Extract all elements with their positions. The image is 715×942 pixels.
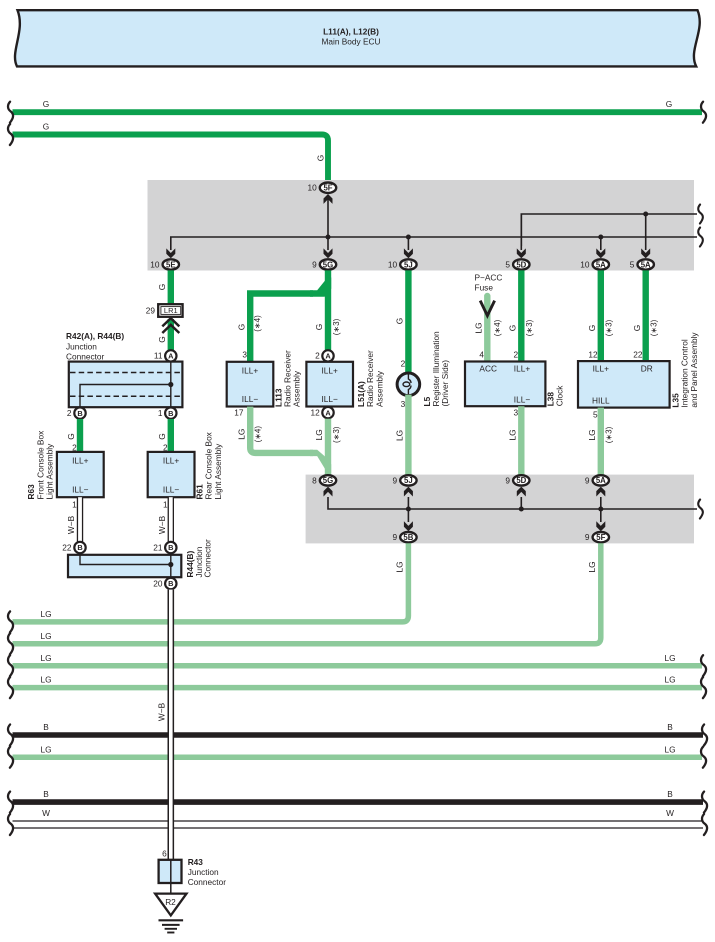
svg-text:B: B: [667, 789, 673, 799]
arrow into 5A (left): [596, 248, 605, 258]
svg-text:5F: 5F: [596, 533, 605, 542]
svg-text:Main Body ECU: Main Body ECU: [321, 37, 380, 47]
wire break (left, LG2): [8, 633, 13, 654]
junction connector R44(B): [68, 555, 181, 577]
internal wire of R44(B): [80, 555, 171, 577]
wire break (right, lower band bus): [698, 500, 703, 519]
wire LG: 5F down to LG bus 2: [13, 543, 601, 644]
arrow into 5G: [324, 248, 333, 258]
wire LG: bulb to 9-5J: [405, 395, 411, 475]
wire G: 5A to L35 DR: [643, 270, 649, 361]
svg-text:Assembly: Assembly: [292, 370, 302, 407]
svg-text:29: 29: [146, 305, 156, 315]
internal wire A to Bs: [80, 362, 171, 407]
svg-text:W: W: [666, 808, 674, 818]
wire break (left, G upper): [8, 102, 13, 123]
svg-text:LG: LG: [508, 429, 518, 440]
wire G: pin B to R63: [77, 419, 83, 453]
svg-text:5G: 5G: [323, 476, 333, 485]
svg-text:9: 9: [392, 475, 397, 485]
svg-text:L11(A), L12(B): L11(A), L12(B): [323, 27, 379, 37]
svg-text:ILL−: ILL−: [242, 394, 259, 404]
svg-text:LG: LG: [40, 675, 51, 685]
junction node at 5J drop: [406, 235, 411, 240]
arrow into 9-5B: [404, 521, 413, 531]
component L113 Radio Receiver Assembly: [227, 362, 274, 407]
svg-text:G: G: [632, 325, 642, 331]
svg-text:6: 6: [162, 849, 167, 859]
pin 2 B of R42: [74, 407, 85, 418]
wire break (left, LG1): [8, 611, 13, 632]
svg-text:5B: 5B: [403, 533, 413, 542]
wire W-B below R61: [169, 497, 173, 541]
junction node at 5A/5F: [598, 507, 603, 512]
svg-text:1: 1: [163, 500, 168, 510]
svg-text:G: G: [587, 325, 597, 331]
pin 11 A of R42: [165, 350, 176, 361]
svg-text:4: 4: [479, 349, 484, 359]
svg-text:A: A: [325, 352, 331, 361]
svg-text:5D: 5D: [516, 260, 526, 269]
wire LG: L113 pin17 + L51 pin12 merge to 8-5G: [250, 407, 313, 453]
wire stub to 5G arrow: [327, 237, 329, 250]
stub 5D: [520, 497, 522, 509]
svg-text:20: 20: [153, 578, 163, 588]
junction node at 6A drop (upper bus): [643, 212, 648, 217]
connector 5B (pin 9): [400, 532, 416, 542]
svg-text:G: G: [43, 122, 49, 132]
ground point R2 (triangle): [155, 894, 186, 916]
svg-text:Connector: Connector: [188, 877, 227, 887]
svg-text:B: B: [77, 409, 82, 418]
wire G: 5J to bulb L5: [405, 270, 411, 374]
connector 5J (pin 9): [400, 475, 416, 485]
svg-text:LG: LG: [314, 429, 324, 440]
svg-text:ILL+: ILL+: [242, 366, 259, 376]
bulb L5 Register Illumination (Driver Side): [397, 373, 420, 396]
pin 12 A of L51(A): [322, 407, 333, 418]
svg-text:W: W: [42, 808, 50, 818]
svg-text:A: A: [325, 408, 331, 417]
svg-text:B: B: [168, 409, 173, 418]
svg-text:10: 10: [580, 259, 590, 269]
svg-text:Connector: Connector: [66, 352, 105, 362]
svg-text:LR1: LR1: [164, 306, 178, 315]
ground symbol: [159, 919, 184, 921]
bus wire (black, upper) 5D-6A row: [521, 214, 697, 246]
wire G bus (lower) turning down to connector 5F: [13, 135, 329, 183]
connector band (Main Body ECU side, upper gray): [148, 180, 695, 271]
svg-text:17: 17: [234, 407, 244, 417]
pin 20 B of R44(B): [165, 578, 176, 589]
svg-text:(∗3): (∗3): [332, 318, 341, 335]
wire drop to 5A (right) crossing lower bus: [645, 214, 647, 250]
wire break (right, upper bus): [698, 205, 703, 224]
arrow into 5F: [324, 194, 333, 204]
svg-text:(∗4): (∗4): [253, 426, 262, 443]
svg-text:ILL+: ILL+: [72, 456, 89, 466]
svg-text:5J: 5J: [404, 260, 413, 269]
svg-text:G: G: [315, 155, 325, 161]
svg-text:22: 22: [62, 542, 72, 552]
svg-text:9: 9: [312, 259, 317, 269]
svg-text:HILL: HILL: [592, 396, 610, 406]
connector 5F (pin 10): [320, 183, 336, 193]
svg-text:LG: LG: [664, 675, 675, 685]
svg-text:12: 12: [588, 349, 598, 359]
svg-text:5E: 5E: [166, 260, 176, 269]
component R61 Rear Console Box Light Assembly: [148, 452, 195, 497]
arrow into 5A (right): [641, 248, 650, 258]
junction connector R43: [159, 860, 182, 883]
svg-text:G: G: [66, 433, 76, 439]
svg-text:LG: LG: [587, 429, 597, 440]
svg-text:Junction: Junction: [188, 867, 219, 877]
svg-text:9: 9: [392, 532, 397, 542]
stub 5A to 5F: [600, 497, 602, 522]
svg-text:B: B: [77, 543, 82, 552]
svg-text:G: G: [395, 318, 405, 324]
svg-text:ILL+: ILL+: [593, 364, 610, 374]
svg-text:G: G: [157, 336, 167, 342]
svg-text:5: 5: [630, 259, 635, 269]
svg-text:G: G: [236, 324, 246, 330]
svg-text:10: 10: [307, 183, 317, 193]
svg-text:2: 2: [401, 359, 406, 369]
svg-text:(∗4): (∗4): [493, 319, 502, 336]
connector 5F (pin 9): [593, 532, 609, 542]
svg-text:(∗3): (∗3): [604, 319, 613, 336]
svg-text:1: 1: [158, 408, 163, 418]
component L51(A) Radio Receiver Assembly: [306, 362, 353, 407]
arrow into 9-5D: [517, 487, 526, 497]
svg-text:5D: 5D: [516, 476, 526, 485]
svg-text:10: 10: [150, 259, 160, 269]
arrow into 9-5F: [596, 521, 605, 531]
wire LG: 5B down to LG bus 1: [13, 543, 409, 622]
svg-text:LG: LG: [40, 631, 51, 641]
connector 5A (pin 9): [593, 475, 609, 485]
wire to ground triangle: [170, 883, 172, 894]
wire G: 5G to L51(A) pin 2 with branch to L113: [325, 270, 331, 350]
wire B bus 2: [13, 799, 704, 805]
wire break (left, G lower): [8, 124, 13, 145]
svg-text:8: 8: [312, 475, 317, 485]
svg-text:G: G: [43, 99, 49, 109]
svg-text:and Panel Assembly: and Panel Assembly: [689, 332, 699, 408]
wire G: 5E to LR1: [168, 270, 174, 304]
component L38 Clock: [465, 362, 545, 407]
wire 5F stub: [327, 196, 329, 237]
shield chevrons: [162, 318, 179, 333]
svg-text:G: G: [314, 324, 324, 330]
wire G bus (upper horizontal): [13, 109, 703, 115]
svg-text:5J: 5J: [404, 476, 413, 485]
junction connector R42(A), R44(B): [69, 362, 183, 408]
svg-text:LG: LG: [474, 322, 484, 333]
wire G: LR1 to pin 11A: [168, 319, 174, 351]
pin 22 B of R44(B): [74, 542, 85, 553]
fuse V symbol: [480, 301, 494, 316]
svg-text:(∗4): (∗4): [253, 315, 262, 332]
wire W bus (white, double line): [13, 820, 704, 822]
svg-text:B: B: [43, 789, 49, 799]
junction node inside R42: [168, 382, 173, 387]
wire G: 5A to L35 ILL+: [598, 270, 604, 361]
svg-text:LG: LG: [40, 744, 51, 754]
wire W-B below R63: [78, 497, 82, 541]
arrow into 5E: [166, 248, 175, 258]
svg-text:(∗3): (∗3): [332, 426, 341, 443]
svg-text:Junction: Junction: [66, 342, 97, 352]
svg-text:W−B: W−B: [66, 515, 76, 534]
wire break (right, G upper): [701, 102, 706, 123]
svg-text:B: B: [667, 722, 673, 732]
svg-text:R43: R43: [188, 857, 204, 867]
svg-text:B: B: [43, 722, 49, 732]
ECU block L11(A), L12(B) Main Body ECU: [15, 10, 700, 66]
component L35 Integration Control and Panel Assembly: [578, 361, 670, 408]
connector 5G (pin 9): [320, 259, 336, 269]
connector 5A (pin 10): [593, 259, 609, 269]
arrow into 5D: [517, 248, 526, 258]
svg-text:22: 22: [633, 349, 643, 359]
svg-text:5A: 5A: [596, 476, 606, 485]
wire drop to 5A (left): [600, 237, 602, 250]
svg-text:ILL−: ILL−: [72, 485, 89, 495]
stub 5J to 5B: [407, 497, 409, 522]
svg-text:B: B: [168, 543, 173, 552]
svg-text:Connector: Connector: [202, 539, 212, 578]
svg-text:5F: 5F: [323, 184, 332, 193]
svg-text:LG: LG: [664, 744, 675, 754]
svg-text:12: 12: [310, 407, 320, 417]
svg-text:2: 2: [315, 351, 320, 361]
svg-text:9: 9: [585, 532, 590, 542]
svg-text:ACC: ACC: [479, 364, 497, 374]
wire stub to 5J arrow: [407, 237, 409, 250]
svg-text:ILL+: ILL+: [514, 364, 531, 374]
pin 2 A of L51(A): [322, 350, 333, 361]
svg-text:B: B: [168, 579, 173, 588]
svg-text:10: 10: [388, 259, 398, 269]
svg-text:9: 9: [505, 475, 510, 485]
svg-text:LG: LG: [236, 429, 246, 440]
svg-text:LG: LG: [395, 561, 405, 572]
arrow into 9-5J: [404, 487, 413, 497]
wire break (right, lower bus): [698, 228, 703, 247]
svg-text:LG: LG: [40, 653, 51, 663]
svg-text:3: 3: [401, 399, 406, 409]
svg-text:Light Assembly: Light Assembly: [45, 443, 55, 500]
svg-text:11: 11: [154, 351, 163, 361]
connector 5D (pin 5): [513, 259, 529, 269]
svg-text:G: G: [666, 99, 672, 109]
wire G: 5D to L38 ILL+: [518, 270, 524, 361]
connector 5D (pin 9): [513, 475, 529, 485]
svg-text:Clock: Clock: [555, 385, 565, 407]
svg-text:ILL+: ILL+: [163, 456, 180, 466]
svg-text:5: 5: [505, 259, 510, 269]
connector 5E (pin 10): [163, 259, 179, 269]
svg-text:5: 5: [593, 410, 598, 420]
svg-text:ILL+: ILL+: [322, 366, 339, 376]
svg-text:5A: 5A: [596, 260, 606, 269]
svg-text:A: A: [168, 352, 174, 361]
svg-text:LG: LG: [587, 561, 597, 572]
arrow into 9-5A: [596, 487, 605, 497]
junction node at 5D: [519, 507, 524, 512]
svg-text:3: 3: [513, 407, 518, 417]
relay block LR1 (pin 29): [158, 304, 182, 317]
svg-text:W−B: W−B: [157, 515, 167, 534]
svg-text:(Driver Side): (Driver Side): [440, 360, 450, 407]
svg-text:G: G: [157, 284, 167, 290]
wire G: pin B to R61: [168, 419, 174, 453]
svg-text:LG: LG: [40, 609, 51, 619]
svg-text:R2: R2: [165, 897, 176, 907]
bus wire (black) in lower band: [328, 497, 697, 509]
connector 5A (pin 5): [638, 259, 654, 269]
bus wire (black, lower) 5E-5G-5J-5A row: [171, 237, 697, 250]
pin 1 B of R42: [165, 407, 176, 418]
component R63 Front Console Box Light Assembly: [57, 452, 104, 497]
junction node at 5F drop: [326, 235, 331, 240]
svg-text:ILL−: ILL−: [163, 485, 180, 495]
wire W-B: R44(B) pin 20 down to R43: [168, 590, 173, 860]
svg-text:(∗3): (∗3): [649, 319, 658, 336]
svg-text:Fuse: Fuse: [475, 282, 494, 292]
junction node at 5J/5B: [406, 507, 411, 512]
wire LG: L38 pin 3 to 9-5D: [518, 406, 524, 475]
wire LG from P-ACC fuse to L38 pin 4: [484, 296, 490, 362]
connector 5J (pin 10): [400, 259, 416, 269]
svg-text:1: 1: [72, 500, 77, 510]
svg-text:LG: LG: [664, 653, 675, 663]
svg-text:G: G: [157, 433, 167, 439]
svg-text:3: 3: [242, 349, 247, 359]
svg-text:(∗3): (∗3): [604, 426, 613, 443]
svg-text:Assembly: Assembly: [374, 370, 384, 407]
svg-text:(∗3): (∗3): [525, 319, 534, 336]
svg-text:DR: DR: [641, 364, 653, 374]
svg-text:G: G: [508, 325, 518, 331]
wire drop to 5D crossing lower bus: [520, 214, 522, 250]
svg-text:5G: 5G: [323, 260, 333, 269]
connector 5G (pin 8): [320, 475, 336, 485]
svg-text:5A: 5A: [641, 260, 651, 269]
wire LG bus 3: [13, 663, 703, 669]
connector band (lower gray): [306, 475, 694, 544]
svg-text:2: 2: [513, 349, 518, 359]
junction node at 5A drop: [598, 235, 603, 240]
pin 21 B of R44(B): [165, 542, 176, 553]
svg-text:ILL−: ILL−: [322, 394, 339, 404]
wire LG bus 4: [13, 685, 703, 691]
svg-text:Light Assembly: Light Assembly: [213, 443, 223, 500]
svg-text:LG: LG: [395, 430, 405, 441]
svg-text:2: 2: [67, 408, 72, 418]
svg-text:ILL−: ILL−: [514, 395, 531, 405]
svg-text:W−B: W−B: [157, 702, 167, 721]
svg-text:9: 9: [585, 475, 590, 485]
arrow into 5J: [404, 248, 413, 258]
wire LG: L35 HILL pin 5 to 9-5A: [598, 408, 604, 475]
wire B bus 1: [13, 732, 704, 738]
svg-text:P−ACC: P−ACC: [475, 272, 503, 282]
arrow into 8-5G: [324, 487, 333, 497]
wire LG bus 5: [13, 754, 703, 760]
svg-text:21: 21: [153, 542, 163, 552]
svg-text:R42(A), R44(B): R42(A), R44(B): [66, 331, 124, 341]
